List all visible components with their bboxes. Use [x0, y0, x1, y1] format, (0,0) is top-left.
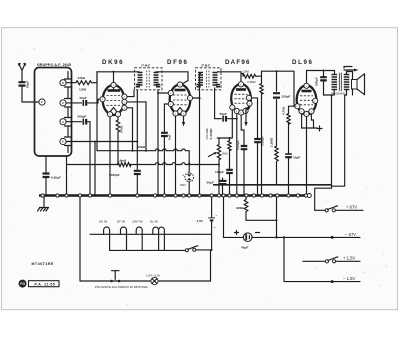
capacitor C13 10uF [285, 154, 300, 194]
wire osc drop x137 [136, 90, 138, 170]
svg-text:P.A. 12-55: P.A. 12-55 [35, 282, 56, 286]
svg-text:DF96: DF96 [167, 59, 189, 66]
wire -67V line [252, 236, 360, 238]
svg-text:40μF: 40μF [241, 246, 248, 250]
switch S3 [185, 246, 210, 252]
svg-text:− 1,5V: − 1,5V [343, 276, 355, 281]
svg-text:50pF: 50pF [26, 81, 30, 88]
wire DK96 pin4 drop [127, 108, 133, 151]
svg-text:3: 3 [62, 81, 64, 85]
filament return line [110, 249, 185, 251]
resistor R7 1Mohm [222, 138, 232, 169]
svg-text:27kΩ: 27kΩ [120, 125, 124, 133]
capacitor C14 500pF [315, 71, 332, 96]
filament V1 [104, 227, 110, 234]
svg-text:500pF: 500pF [315, 77, 319, 86]
node dots AVC [132, 150, 134, 152]
wire DL96 pin7 [311, 114, 313, 128]
battery B1 electrolytic 40uF [235, 231, 260, 250]
svg-text:5nF: 5nF [167, 134, 171, 140]
wire DF96 pin3 to bus [175, 116, 177, 194]
stamp logo [19, 280, 60, 288]
svg-text:2: 2 [41, 100, 43, 104]
potentiometer R6 0,47Mohm VOLUME [205, 128, 221, 194]
tuner box GRUPPO A.F. 2645 [35, 68, 72, 157]
choke L1 3,9mH [117, 159, 131, 167]
svg-text:− 67V: − 67V [345, 232, 356, 237]
resistor R1 47kohm 1/2W [66, 76, 94, 91]
wire DF96 plate drop to bus [199, 98, 201, 194]
resistor R4 1Mohm [241, 70, 262, 78]
wire -67V vertical [224, 197, 244, 237]
svg-text:+ 1,5V: + 1,5V [343, 256, 355, 261]
svg-text:−: − [216, 213, 218, 217]
svg-text:56pF: 56pF [220, 112, 227, 116]
capacitor C9 0,01uF [236, 140, 247, 194]
lamp 1,5V 0,2A [146, 274, 160, 285]
svg-text:320Ω: 320Ω [236, 206, 244, 210]
oscillator line with choke [67, 163, 220, 165]
ground chassis [38, 197, 49, 211]
capacitor C3 500pF [66, 115, 90, 195]
wire DL96 plate to output transformer [307, 71, 335, 84]
tube V4 DL96 [295, 83, 318, 116]
capacitor C-ant 50pF [19, 78, 30, 102]
wire node5 oscillator line [66, 141, 137, 143]
wire DAF96 plate [252, 98, 258, 124]
wire DAF96 pin6 arrow [246, 106, 250, 122]
svg-text:2,2MΩ: 2,2MΩ [269, 137, 273, 147]
svg-text:1,5V: 1,5V [197, 219, 204, 223]
wire node5 vertical to osc line [94, 142, 96, 195]
node 3 terminal [60, 80, 66, 86]
rail B+ [213, 184, 332, 186]
svg-text:5: 5 [62, 140, 64, 144]
wire DF96 pin5 to C6 [164, 104, 168, 132]
wire -1,5V line [276, 197, 278, 237]
tube V1 DK96 [100, 82, 127, 116]
wire antenna to box [22, 101, 39, 103]
svg-text:4,7kΩ: 4,7kΩ [282, 106, 286, 115]
svg-text:1ª M.F.: 1ª M.F. [141, 64, 151, 68]
filament drops [110, 234, 165, 250]
tube V2 DF96 [168, 82, 192, 116]
wire +67V feed [315, 185, 332, 211]
svg-text:0,05μF: 0,05μF [51, 175, 61, 179]
svg-text:0,47MΩ: 0,47MΩ [209, 128, 213, 140]
bus terminals [41, 194, 311, 198]
IF transformer T2 455kc [196, 64, 222, 90]
svg-text:3,9mH: 3,9mH [117, 159, 127, 163]
node 2 terminal [39, 99, 45, 105]
node 4b terminal [60, 119, 66, 125]
wire bus to lamp line [79, 197, 81, 281]
wire box bottom left drop [45, 156, 47, 172]
wire DF96 pin7 arrow [183, 116, 185, 122]
svg-text:3,3MΩ: 3,3MΩ [247, 80, 256, 84]
svg-text:0,05μF: 0,05μF [260, 136, 264, 146]
lamp line [80, 280, 211, 282]
svg-text:1MΩ: 1MΩ [243, 70, 250, 74]
capacitor C2 50pF [66, 96, 100, 106]
svg-text:50pF: 50pF [207, 181, 214, 185]
svg-text:1,5V–0,2A: 1,5V–0,2A [146, 274, 160, 278]
svg-text:15kΩ: 15kΩ [138, 145, 146, 149]
svg-text:1MΩ: 1MΩ [222, 152, 229, 156]
node plus mark [317, 126, 322, 131]
node 4 terminal [60, 100, 66, 106]
filament V4 [153, 227, 165, 234]
capacitor C15 50uF [207, 178, 227, 194]
capacitor C6 5nF [161, 133, 171, 195]
svg-text:50pF: 50pF [80, 96, 87, 100]
svg-text:4: 4 [62, 101, 64, 105]
surge device 250V [180, 163, 194, 194]
svg-text:FG: FG [20, 282, 25, 286]
resistor R8 2,2Mohm [269, 137, 278, 185]
resistor R10 320ohm [236, 197, 277, 220]
filament chain line [90, 233, 212, 235]
svg-text:0,01μF: 0,01μF [236, 140, 240, 150]
wire +1,5V line [303, 260, 326, 262]
coil sections inside box [65, 72, 72, 153]
svg-text:DK 96: DK 96 [99, 220, 108, 224]
capacitor C10 100pF [215, 170, 233, 195]
svg-text:2ª M.F.: 2ª M.F. [201, 64, 211, 68]
wire DL96 pin3 bias [302, 114, 317, 128]
filament V2 [121, 227, 127, 234]
wire DK96 pin3 to AVC line [127, 102, 146, 151]
pushbutton [110, 271, 120, 283]
capacitor C7 0,05uF [254, 124, 264, 194]
svg-text:1/2W: 1/2W [79, 88, 86, 92]
svg-text:250pF: 250pF [282, 94, 291, 98]
svg-text:PULSANTE SUL PERNO DI SINTONIA: PULSANTE SUL PERNO DI SINTONIA [95, 285, 148, 289]
resistor R5 3,3Mohm [247, 76, 263, 194]
wire box bottom right drop [66, 156, 68, 194]
svg-text:MT46T4RE: MT46T4RE [32, 262, 54, 266]
svg-text:GRUPPO A.F. 2645: GRUPPO A.F. 2645 [37, 63, 71, 67]
wire secondary to speaker [332, 72, 353, 187]
wire DAF96 pin4 drop [241, 115, 244, 145]
antenna [19, 64, 26, 80]
switch S2 [325, 257, 360, 263]
resistor R9 4,7kohm [282, 106, 295, 153]
svg-text:47kΩ: 47kΩ [78, 76, 86, 80]
node 5 terminal [60, 138, 66, 144]
svg-text:250V: 250V [180, 184, 186, 187]
wire DL96 pin4 to bus [306, 117, 308, 195]
svg-text:+: + [214, 226, 216, 230]
wire primary bottom down [332, 90, 335, 185]
battery cell 1,5V [197, 197, 218, 250]
speaker arrow [344, 69, 354, 71]
svg-text:DK96: DK96 [102, 59, 124, 66]
svg-text:10μF: 10μF [293, 155, 300, 159]
IF transformer T1 455kc [135, 64, 163, 90]
filament V3 [136, 227, 142, 234]
svg-text:DL96: DL96 [292, 59, 314, 66]
speaker LS1 [352, 74, 365, 95]
wire DK96 pin2 [127, 90, 134, 97]
svg-text:DAF 96: DAF 96 [133, 220, 144, 224]
svg-text:DAF96: DAF96 [225, 59, 251, 66]
wire DK96 pin5 to bus [109, 117, 111, 195]
svg-text:500pF: 500pF [78, 115, 87, 119]
switch S1 [325, 206, 363, 212]
wire IFT2 secondary bottom to detector [215, 88, 218, 119]
svg-text:100pF: 100pF [215, 170, 224, 174]
ground bus [39, 194, 309, 196]
svg-text:DL 96: DL 96 [150, 220, 158, 224]
wire DF96 plate to IFT2 [193, 74, 201, 99]
capacitor C4 0,05uF [43, 174, 61, 195]
capacitor C12 250pF [273, 71, 291, 146]
wire AVC line 15k [97, 149, 189, 163]
tube V3 DAF96 [230, 82, 252, 115]
wire grid drop x97 [96, 72, 98, 151]
wire coupling to DL96 grid [262, 71, 295, 106]
wire DF96 pin6 to IFT1 secondary bottom [158, 90, 168, 194]
wire IFT1 secondary to DF96 grid [156, 72, 188, 84]
output transformer T3 [331, 73, 349, 96]
wire IFT2 secondary top to DAF96 grid [218, 72, 242, 82]
svg-text:VOLUME: VOLUME [205, 128, 209, 140]
wire DK96 plate to IFT1 [97, 72, 140, 83]
wire switch junction to lamp line [210, 250, 212, 281]
resistor R2 27kohm [116, 117, 123, 165]
svg-text:+ 67V: + 67V [346, 205, 357, 210]
wire DAF96 pin3 drop [236, 114, 238, 195]
capacitor C8 56pF detector [218, 112, 237, 122]
svg-text:5000pF: 5000pF [109, 173, 120, 177]
svg-text:DF 96: DF 96 [117, 220, 126, 224]
wire DAF96 pin5 to volume [217, 110, 232, 138]
wire R1 to AVC line [95, 72, 98, 83]
svg-text:4: 4 [62, 120, 64, 124]
capacitor C5 5000pF [109, 171, 141, 195]
